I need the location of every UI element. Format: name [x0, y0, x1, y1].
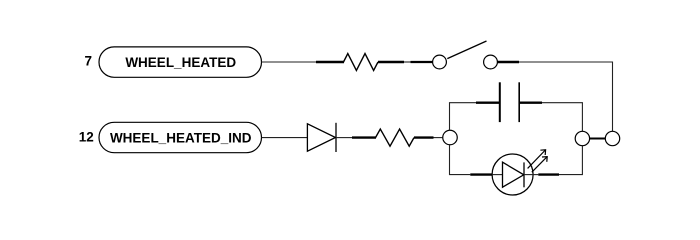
- capacitor C1 right lead: [519, 101, 542, 103]
- capacitor C1: [500, 82, 519, 122]
- svg-text:12: 12: [79, 129, 94, 144]
- wire: capacitor C1 to node B: [542, 103, 582, 132]
- wire: diode D1 to resistor R2: [336, 137, 352, 139]
- resistor R1 left lead: [316, 61, 344, 63]
- connector label WHEEL_HEATED: [99, 47, 262, 77]
- capacitor C1 left lead: [476, 101, 500, 103]
- LED DS1 emission arrow 2: [532, 157, 547, 173]
- wire: node A down to LED branch: [450, 145, 471, 175]
- switch S1 right contact: [484, 55, 498, 69]
- resistor R1: [344, 54, 379, 71]
- wire: resistor R1 to switch S1: [404, 61, 411, 63]
- LED DS1 emission arrow 1: [528, 150, 546, 169]
- svg-text:WHEEL_HEATED: WHEEL_HEATED: [125, 55, 236, 70]
- wire: resistor R2 to node A: [434, 137, 443, 139]
- wire: switch S1 to node C (top): [519, 62, 613, 131]
- switch S1 left lead: [411, 61, 433, 63]
- wire: node A up to capacitor branch: [450, 103, 477, 131]
- LED DS1: [492, 154, 538, 195]
- wire: node B to node C: [590, 138, 606, 140]
- resistor R2: [376, 129, 415, 146]
- switch S1 left contact: [433, 55, 447, 69]
- svg-text:7: 7: [84, 54, 92, 69]
- resistor R1 right lead: [378, 61, 404, 63]
- node B (right junction circle): [575, 131, 589, 145]
- LED DS1 left lead: [470, 173, 492, 175]
- LED DS1 right lead: [538, 173, 559, 175]
- resistor R2 left lead: [352, 136, 376, 138]
- node C (output junction circle): [605, 131, 619, 145]
- switch S1 blade: [447, 41, 486, 59]
- wire: label 7 to resistor R1: [262, 61, 317, 63]
- node A (left junction circle): [443, 130, 458, 145]
- resistor R2 right lead: [414, 136, 434, 138]
- diode D1: [307, 123, 336, 152]
- wire: LED DS1 to node B: [559, 146, 582, 175]
- wire: label 12 to diode D1: [262, 137, 308, 139]
- switch S1 right lead: [497, 61, 519, 63]
- svg-text:WHEEL_HEATED_IND: WHEEL_HEATED_IND: [110, 130, 252, 145]
- connector label WHEEL_HEATED_IND: [99, 122, 262, 152]
